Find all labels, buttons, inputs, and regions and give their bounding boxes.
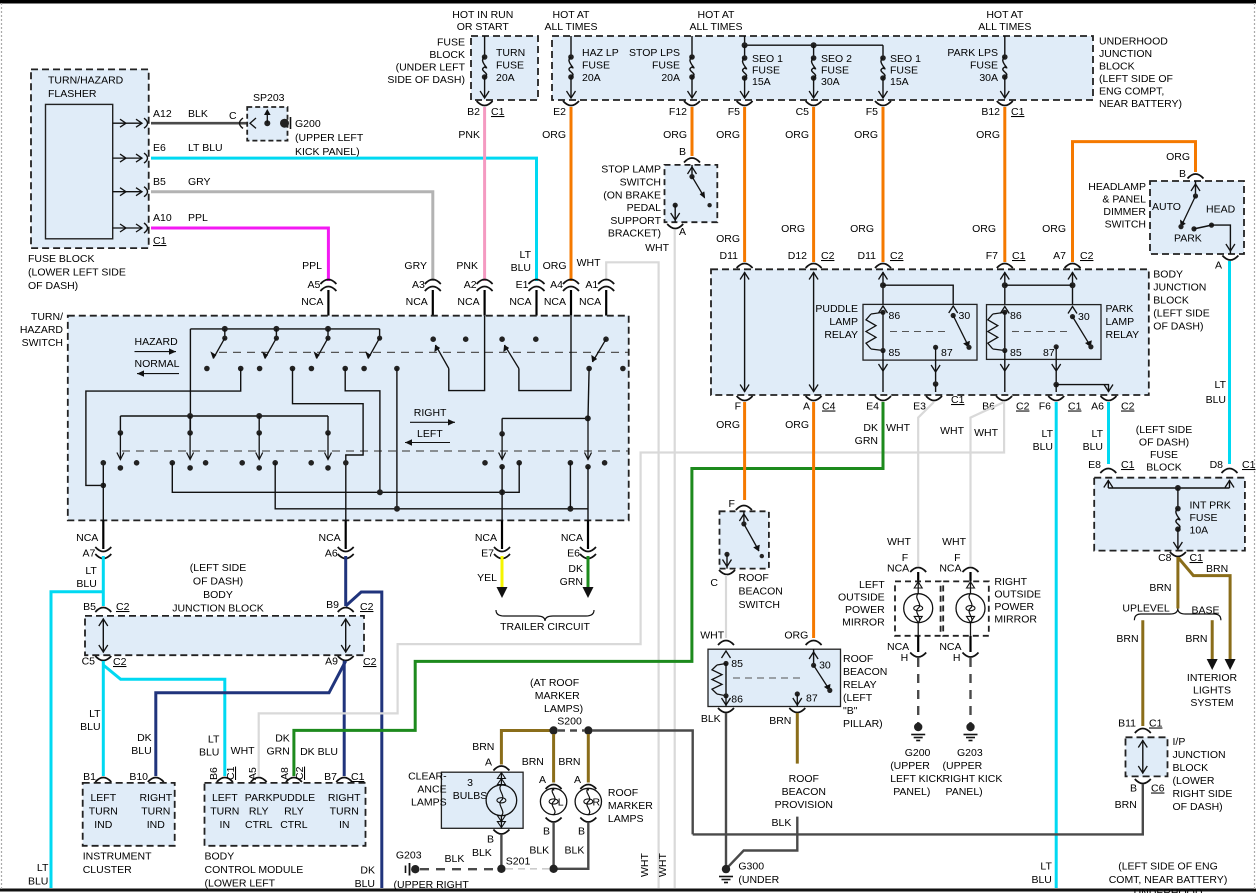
svg-text:B7: B7 [324,771,337,783]
svg-text:(ON BRAKE: (ON BRAKE [603,190,661,202]
svg-text:LT: LT [208,734,220,746]
svg-text:A6: A6 [325,548,338,560]
svg-text:BLOCK: BLOCK [1173,762,1209,774]
connector B1 [95,778,111,783]
svg-text:SUPPORT: SUPPORT [610,215,661,227]
svg-text:TURN: TURN [89,806,118,818]
underhood junction block dashed box [552,36,1093,100]
svg-text:87: 87 [806,693,818,705]
svg-text:(LOWER LEFT: (LOWER LEFT [205,878,276,890]
wire BLK relay 86 to G300 [725,713,727,869]
svg-text:C1: C1 [1012,250,1026,262]
svg-text:ORG: ORG [781,223,805,235]
left body junction block dashed box [85,616,364,655]
svg-text:BLU: BLU [131,745,151,757]
splice S200 dots and dashed link [549,726,557,734]
svg-text:C1: C1 [1242,459,1256,471]
svg-text:OR START: OR START [457,21,510,33]
svg-text:A: A [1215,260,1222,272]
flasher output pin arrow [113,157,142,159]
svg-text:S201: S201 [506,856,531,868]
svg-text:ORG: ORG [543,260,567,272]
svg-text:A: A [485,757,492,769]
net A6 (right turn front) inside switch [293,369,364,521]
svg-text:(LOWER: (LOWER [1173,775,1215,787]
svg-text:ORG: ORG [1042,223,1066,235]
svg-text:LEFT: LEFT [859,579,885,591]
svg-text:C4: C4 [822,401,836,413]
roof marker lamp R bulb [587,789,589,791]
stop lamp switch contacts [691,165,693,177]
puddle relay 85 out to E4 [882,351,884,393]
park relay pin 87 [1054,344,1059,349]
svg-text:A7: A7 [82,548,95,560]
roof beacon relay switch 30-87 [813,649,815,665]
svg-text:ORG: ORG [716,129,740,141]
svg-text:L: L [558,797,564,809]
svg-text:UNDERHOOD: UNDERHOOD [1134,887,1203,893]
wire WHT park relay coil to BCM A5 [259,402,1004,776]
svg-text:E7: E7 [481,548,494,560]
svg-text:C2: C2 [294,766,306,780]
svg-text:C2: C2 [821,250,835,262]
svg-text:FLASHER: FLASHER [48,88,97,100]
svg-text:C: C [710,577,718,589]
wire LT BLU F6 down page [1055,402,1058,888]
svg-text:TURN: TURN [330,806,359,818]
svg-text:IN: IN [339,819,350,831]
svg-text:LT: LT [85,565,97,577]
roof beacon relay box [708,649,841,706]
svg-text:HEAD: HEAD [1206,204,1236,216]
svg-text:CTRL: CTRL [280,819,308,831]
svg-text:RIGHT: RIGHT [328,792,361,804]
svg-text:ORG: ORG [716,233,740,245]
svg-text:(UPPER RIGHT: (UPPER RIGHT [394,879,470,891]
svg-text:BLK: BLK [188,108,208,120]
svg-text:B1: B1 [83,771,96,783]
wire LT BLU A7 to B5 and down page-left [102,556,105,606]
svg-text:ENG COMPT,: ENG COMPT, [1099,86,1164,98]
svg-text:OF DASH): OF DASH) [193,575,243,587]
svg-text:FUSE: FUSE [821,65,849,77]
stray dot right of A1 arm [620,366,626,372]
svg-text:PNK: PNK [456,260,478,272]
wire BLK G200 mirror to ground [917,658,919,723]
svg-text:G200: G200 [905,747,931,759]
svg-text:A10: A10 [153,212,172,224]
svg-text:85: 85 [889,347,901,359]
connector E3 C1 [926,396,942,401]
roof beacon relay dashed link [733,677,800,679]
U link A3 contact to A2 wire [449,316,485,391]
wire LT BLU dimmer A to fuse block D8 [1228,261,1231,464]
svg-text:ROOF: ROOF [789,773,819,785]
connector switch pin A5 / NCA [320,280,336,285]
svg-text:PUDDLE: PUDDLE [273,792,316,804]
fuse block (under left side of dash) dashed box [471,36,538,100]
svg-text:LT: LT [520,249,532,261]
svg-text:85: 85 [731,658,743,670]
svg-text:BRN: BRN [1115,799,1137,811]
park lamp relay box [987,305,1102,360]
svg-text:B11: B11 [1118,718,1136,730]
svg-text:R: R [593,797,601,809]
wire WHT roof beacon switch C to relay 85 [725,575,727,638]
svg-text:30: 30 [819,660,831,672]
svg-text:15A: 15A [752,76,771,88]
pass-through arrow B9 to A9 [345,619,347,653]
svg-text:STOP LPS: STOP LPS [629,47,680,59]
svg-text:LEFT: LEFT [90,792,116,804]
clearance lamps box [441,772,523,828]
svg-text:GRN: GRN [560,576,583,588]
svg-text:(LEFT SIDE: (LEFT SIDE [1136,424,1192,436]
svg-text:DK: DK [275,733,290,745]
svg-text:RIGHT SIDE: RIGHT SIDE [1173,788,1233,800]
svg-text:WHT: WHT [886,422,910,434]
svg-text:ANCE: ANCE [417,784,446,796]
wire I/P junction B to S200 run [693,784,1143,834]
svg-text:B: B [487,834,494,846]
svg-text:BLOCK: BLOCK [1153,295,1189,307]
svg-text:(LEFT SIDE: (LEFT SIDE [190,562,246,574]
svg-text:C8: C8 [1158,552,1172,564]
svg-text:LAMPS): LAMPS) [544,703,583,715]
svg-text:C2: C2 [1080,250,1094,262]
svg-text:HOT IN RUN: HOT IN RUN [452,9,513,21]
connector switch pin E6 / NCA [587,520,589,549]
svg-text:DK: DK [360,865,375,877]
svg-text:STOP LAMP: STOP LAMP [601,164,661,176]
svg-text:BLU: BLU [355,878,375,890]
svg-text:ORG: ORG [542,129,566,141]
svg-text:LT BLU: LT BLU [188,142,223,154]
svg-text:86: 86 [731,694,743,706]
svg-text:C2: C2 [1016,401,1030,413]
svg-text:C1: C1 [351,771,365,783]
svg-text:BODY: BODY [1153,269,1183,281]
svg-text:MARKER: MARKER [535,690,580,702]
wire BLK L marker to S201 [552,823,554,869]
svg-text:C2: C2 [890,250,904,262]
svg-text:SIDE OF DASH): SIDE OF DASH) [387,74,465,86]
svg-text:TURN: TURN [210,806,239,818]
svg-text:RLY: RLY [284,806,304,818]
puddle relay pin 87 [933,345,938,350]
svg-text:BRN: BRN [1185,633,1207,645]
svg-text:C1: C1 [1121,459,1135,471]
body control module dashed box [205,783,366,846]
svg-text:ROOF: ROOF [739,572,769,584]
svg-text:PANEL): PANEL) [946,786,983,798]
svg-text:HOT AT: HOT AT [698,9,736,21]
svg-text:FUSE: FUSE [496,60,524,72]
svg-text:86: 86 [889,310,901,322]
link hazard pair3 to E7 bus [345,369,380,493]
dimmer switch contacts [1195,181,1197,196]
svg-text:ORG: ORG [716,419,740,431]
fuse SEO 1 FUSE 15A (left) [744,45,746,58]
svg-text:POWER: POWER [994,601,1034,613]
svg-text:D12: D12 [788,250,807,262]
svg-text:E8: E8 [1088,459,1101,471]
svg-text:A7: A7 [1053,250,1066,262]
svg-text:E2: E2 [553,106,566,118]
fuse HAZ LP FUSE 20A [570,36,572,57]
roof beacon relay coil [722,651,731,658]
svg-text:INT PRK: INT PRK [1190,500,1231,512]
svg-text:BASE: BASE [1192,605,1220,617]
lower contact dots row [101,460,107,466]
wire ORG A/C4 to roof beacon relay 30 [812,402,815,638]
svg-text:30A: 30A [821,76,840,88]
roof marker lamp L bulb [553,789,555,791]
svg-text:GRY: GRY [188,176,211,188]
connector R marker B [580,818,596,823]
svg-text:TURN/: TURN/ [31,311,63,323]
svg-text:BLU: BLU [1206,394,1226,406]
svg-text:ORG: ORG [785,419,809,431]
svg-text:G200: G200 [295,118,321,130]
wire BLK flasher A12 to SP203 [151,122,283,125]
svg-text:HOT AT: HOT AT [986,9,1024,21]
connector A C4 [806,396,822,401]
connector E2 [563,101,579,106]
svg-text:GRY: GRY [404,260,427,272]
svg-text:LT: LT [1092,428,1104,440]
svg-text:JUNCTION: JUNCTION [1153,282,1206,294]
svg-text:C5: C5 [82,656,96,668]
wire S200 output run to I/P junction block [592,731,693,835]
svg-text:LT: LT [1215,379,1227,391]
flasher output pin arrow [113,191,142,193]
svg-text:LT: LT [1042,428,1054,440]
svg-text:BLU: BLU [28,876,48,888]
connector A5 (rotated) [251,778,267,783]
svg-text:BEACON: BEACON [782,786,826,798]
svg-text:A12: A12 [153,108,172,120]
svg-text:ORG: ORG [976,129,1000,141]
svg-text:C1: C1 [153,235,167,247]
svg-text:G203: G203 [957,747,983,759]
body junction block dashed box (left side of dash) [711,269,1149,395]
park relay dashed link [1012,331,1068,333]
ground G200 tap dot [280,119,289,128]
connector B5 C2 [95,608,111,613]
wire BRN S200 to R marker lamp [587,734,590,783]
svg-text:FUSE: FUSE [1190,512,1218,524]
svg-text:BRN: BRN [1116,633,1138,645]
svg-text:UPLEVEL: UPLEVEL [1122,603,1169,615]
svg-text:PPL: PPL [302,260,322,272]
svg-text:C6: C6 [1151,783,1165,795]
I/P junction block dashed box [1126,737,1168,776]
wire BRN uplevel branch to I/P junction block B11 [1141,620,1144,726]
svg-text:MARKER: MARKER [608,800,653,812]
svg-text:LT: LT [1040,861,1052,873]
fuse block (left side of dash) dashed box [1094,478,1245,551]
svg-text:BLU: BLU [199,747,219,759]
svg-text:INSTRUMENT: INSTRUMENT [83,851,152,863]
svg-text:FUSE: FUSE [890,65,918,77]
svg-text:(LEFT SIDE OF ENG: (LEFT SIDE OF ENG [1118,861,1218,873]
connector F (BJB out) [737,396,753,401]
hazard vertical feed to lower bus [189,329,191,433]
G200 power mirror dashed box [895,581,941,635]
svg-text:A1: A1 [585,279,598,291]
svg-text:A: A [803,401,810,413]
svg-text:C2: C2 [113,656,127,668]
svg-text:10A: 10A [1190,525,1209,537]
connector A6 C2 [1101,396,1117,401]
park lamp relay feed split [1004,272,1006,305]
svg-text:C1: C1 [1190,552,1204,564]
svg-text:BLK: BLK [565,845,585,857]
svg-text:(LOWER LEFT SIDE: (LOWER LEFT SIDE [28,267,126,279]
svg-text:WHT: WHT [231,745,255,757]
svg-text:RIGHT: RIGHT [994,576,1027,588]
svg-text:LEFT: LEFT [212,792,238,804]
hazard feed bus (top) [190,328,379,330]
wire PNK B2 to switch A2 [483,107,486,281]
connector roof beacon relay 85 [718,641,734,646]
roof beacon switch dashed box [720,511,769,568]
svg-text:OF DASH): OF DASH) [1139,437,1189,449]
svg-text:& PANEL: & PANEL [1102,194,1146,206]
svg-text:PROVISION: PROVISION [775,799,833,811]
svg-text:30: 30 [959,310,971,322]
svg-text:DIMMER: DIMMER [1103,206,1146,218]
svg-text:WHT: WHT [887,536,911,548]
svg-text:SWITCH: SWITCH [22,337,63,349]
svg-text:TURN: TURN [141,806,170,818]
pass-through arrow B5 to C5 [102,619,104,653]
svg-text:H: H [901,652,909,664]
net E7 wiper line [502,417,588,419]
connector B7 C1 [336,778,352,783]
connector B2 C1 [477,101,493,106]
svg-text:B5: B5 [83,601,96,613]
svg-text:GRN: GRN [266,746,289,758]
net E6 wiper line [588,369,589,419]
svg-text:BLOCK: BLOCK [1146,462,1182,474]
puddle relay pin 30 switch [949,306,958,313]
svg-text:TURN/HAZARD: TURN/HAZARD [48,75,124,87]
connector F7 C1 [997,264,1013,269]
svg-text:RIGHT: RIGHT [414,407,447,419]
ground G203 [966,723,974,731]
wire GRY flasher B5 to switch A3 [151,192,433,281]
connector B12 C1 [997,101,1013,106]
connector D11 C2 (second) [875,264,891,269]
svg-text:SWITCH: SWITCH [739,599,780,611]
svg-text:LAMP: LAMP [829,316,858,328]
headlamp dimmer switch dashed box [1150,181,1244,254]
connector dimmer A [1222,256,1238,261]
park relay pin 30 switch [1068,307,1077,314]
svg-text:NCA: NCA [579,296,601,308]
fuse INT PRK FUSE 10A [1175,506,1181,512]
wire DK BLU A9 to instrument cluster B10 [156,661,346,776]
connector switch pin A1 / NCA [598,280,614,285]
connector switch pin E1 / NCA [529,280,545,285]
svg-text:OF DASH): OF DASH) [1173,801,1223,813]
wire DK BLU A6 to B9 and branch down page [344,556,347,606]
svg-text:RIGHT: RIGHT [139,792,172,804]
svg-text:SEO 2: SEO 2 [821,53,852,65]
wire ORG B12 to F7 [1003,107,1006,262]
puddle lamp relay box [863,304,977,360]
svg-text:FUSE: FUSE [652,60,680,72]
pass-through arrow D12 to A [813,272,815,392]
svg-text:HAZARD: HAZARD [20,324,64,336]
connector roof beacon switch F [736,506,752,511]
connector L marker B [546,818,562,823]
split brace UPLEVEL/BASE [1134,609,1221,621]
connector switch pin A4 / NCA [563,280,579,285]
svg-text:S200: S200 [557,716,582,728]
connector relay 86 out [718,708,734,713]
svg-text:PILLAR): PILLAR) [843,718,883,730]
svg-text:BLU: BLU [511,262,531,274]
wire DK BLU A9 to BCM B7 [343,661,346,776]
svg-text:B2: B2 [467,106,480,118]
connector A7 C2 [1065,264,1081,269]
svg-text:BLU: BLU [80,721,100,733]
svg-text:PARK: PARK [1106,303,1134,315]
svg-text:RELAY: RELAY [843,679,877,691]
G200 mirror motor [917,581,919,594]
wire WHT E3 to left power mirror [918,402,934,566]
svg-text:I/P: I/P [1173,736,1186,748]
svg-text:F: F [728,498,734,510]
svg-text:A6: A6 [1091,401,1104,413]
roof beacon switch contacts [743,511,745,524]
splice SP203 box [247,107,287,141]
wire BRN C8 down to split brace [1176,557,1179,609]
svg-text:RELAY: RELAY [1106,329,1140,341]
svg-text:BRACKET): BRACKET) [608,228,661,240]
svg-text:SEO 1: SEO 1 [890,53,921,65]
link hazard pair4 to E6 bus [396,369,398,509]
svg-text:HEADLAMP: HEADLAMP [1088,181,1146,193]
connector C5 C2 [95,656,111,661]
svg-text:NCA: NCA [561,532,583,544]
svg-text:ORG: ORG [663,129,687,141]
svg-text:C2: C2 [360,601,374,613]
svg-text:OUTSIDE: OUTSIDE [838,592,885,604]
svg-text:NCA: NCA [319,532,341,544]
wire ORG C5 to D12 [812,107,815,262]
G203 mirror motor [970,581,972,594]
pass-through arrow D11 to F [744,272,746,392]
svg-text:C1: C1 [1068,401,1082,413]
connector R marker lamp [580,785,596,790]
splice G203 symbol [409,863,411,876]
svg-text:NCA: NCA [457,296,479,308]
turn/hazard switch dashed box [68,316,629,521]
svg-text:B9: B9 [326,599,339,611]
svg-text:YEL: YEL [477,572,497,584]
connector F12 [684,101,700,106]
svg-text:FUSE: FUSE [970,60,998,72]
svg-text:(UNDER LEFT: (UNDER LEFT [396,62,466,74]
connector stop lamp switch B [684,158,700,163]
svg-text:B10: B10 [129,771,148,783]
svg-text:B: B [578,826,585,838]
svg-text:ALL TIMES: ALL TIMES [978,21,1031,33]
